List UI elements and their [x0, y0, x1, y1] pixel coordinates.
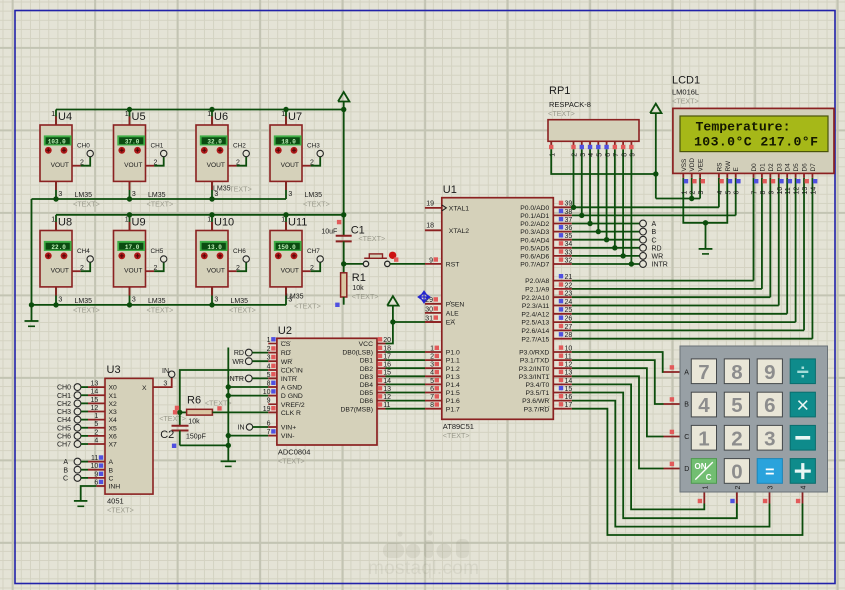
svg-text:Temperature:: Temperature: [696, 120, 791, 135]
svg-text:16: 16 [565, 394, 573, 401]
svg-text:22: 22 [565, 282, 573, 289]
svg-text:17: 17 [565, 402, 573, 409]
node IN terminal at U3 X output [142, 368, 175, 392]
svg-text:A: A [63, 459, 68, 466]
svg-text:150.0: 150.0 [278, 244, 296, 251]
U1 XTAL2 pin [425, 223, 469, 235]
svg-text:P0.1/AD1: P0.1/AD1 [520, 213, 549, 220]
wire R6 junction to U2 CLK IN [180, 370, 277, 412]
power symbol VCC (EA/ADC) [387, 296, 398, 322]
wire P3.6 to keypad column 3 [572, 401, 770, 527]
svg-text:P1.1: P1.1 [446, 358, 460, 365]
svg-text:9: 9 [768, 191, 775, 195]
U1 port3 pins [553, 345, 572, 409]
node B terminal (port0) [640, 228, 657, 236]
svg-text:RP1: RP1 [549, 85, 570, 97]
svg-text:ALE: ALE [446, 311, 459, 318]
svg-text:14: 14 [91, 389, 99, 396]
svg-text:31: 31 [425, 315, 433, 322]
temperature sensor U6 (LM35) [196, 110, 252, 200]
svg-text:X0: X0 [109, 385, 118, 392]
svg-text:<TEXT>: <TEXT> [548, 109, 575, 118]
push button (reset) [344, 252, 442, 267]
resistor pack RP1 (RESPACK-8) [548, 85, 639, 141]
resistor R1 10k [335, 264, 378, 307]
wire LCD VDD/VEE power [656, 113, 700, 202]
svg-text:P0.6/AD6: P0.6/AD6 [520, 254, 549, 261]
svg-text:VOUT: VOUT [207, 162, 225, 169]
svg-text:2: 2 [572, 153, 579, 157]
svg-text:1: 1 [430, 345, 434, 352]
wire VCC rail top row 1 [56, 107, 346, 112]
svg-text:8: 8 [430, 402, 434, 409]
svg-text:1: 1 [125, 217, 129, 224]
svg-text:U6: U6 [214, 111, 228, 123]
svg-text:DB2: DB2 [360, 366, 373, 373]
svg-text:P2.2/A10: P2.2/A10 [521, 295, 549, 302]
svg-text:2: 2 [80, 160, 84, 167]
svg-text:PSEN: PSEN [446, 301, 465, 308]
svg-text:28: 28 [565, 332, 573, 339]
svg-text:P3.7/RD: P3.7/RD [524, 406, 550, 413]
wire P3.0 to keypad row A [572, 352, 680, 372]
node IN terminal at U2 VIN+ [238, 424, 277, 432]
svg-text:4: 4 [698, 394, 710, 417]
svg-text:U11: U11 [288, 217, 307, 229]
svg-text:<TEXT>: <TEXT> [225, 185, 252, 194]
node INTR terminal (port0) [640, 261, 668, 269]
svg-text:22.0: 22.0 [51, 244, 66, 251]
node CH2 terminal at U3 pin X2 [57, 397, 117, 408]
svg-text:VOUT: VOUT [281, 268, 299, 275]
node INTR terminal at U2 [228, 375, 277, 383]
svg-text:U2: U2 [278, 325, 292, 337]
svg-text:P2.6/A14: P2.6/A14 [521, 328, 549, 335]
svg-text:9: 9 [764, 361, 775, 384]
svg-text:3: 3 [580, 153, 587, 157]
svg-text:4051: 4051 [107, 497, 124, 506]
wire GND rail bottom row 2 [32, 302, 287, 307]
svg-text:4: 4 [267, 363, 271, 370]
svg-text:D: D [684, 466, 689, 473]
svg-text:<TEXT>: <TEXT> [229, 306, 256, 315]
svg-text:RD: RD [234, 350, 244, 357]
svg-text:0: 0 [731, 461, 742, 484]
svg-text:X4: X4 [109, 417, 118, 424]
svg-text:P2.3/A11: P2.3/A11 [522, 303, 550, 310]
svg-text:5: 5 [597, 153, 604, 157]
svg-text:3: 3 [58, 191, 62, 198]
U1 XTAL1 pin [425, 200, 469, 212]
svg-text:R6: R6 [187, 394, 201, 406]
wire P0.1 to LCD E [735, 178, 737, 216]
svg-text:DB7(MSB): DB7(MSB) [341, 406, 373, 413]
svg-text:1: 1 [702, 486, 709, 490]
svg-text:VOUT: VOUT [124, 162, 142, 169]
temperature sensor U10 (LM35) [196, 215, 256, 315]
svg-text:1: 1 [207, 217, 211, 224]
svg-text:<TEXT>: <TEXT> [159, 414, 186, 423]
svg-text:4: 4 [801, 486, 808, 490]
svg-text:3: 3 [698, 191, 705, 195]
svg-text:X: X [142, 385, 147, 392]
pin stub U2 CS [268, 343, 277, 345]
svg-text:27: 27 [565, 324, 573, 331]
svg-text:12: 12 [565, 362, 573, 369]
svg-text:P1.4: P1.4 [446, 382, 460, 389]
svg-text:LM35: LM35 [75, 192, 93, 199]
svg-text:P3.3/INT1: P3.3/INT1 [519, 374, 550, 381]
svg-text:WR: WR [232, 359, 244, 366]
wire P3.7 to keypad column 4 [572, 409, 803, 535]
node C terminal at U3 pin C [63, 471, 114, 482]
svg-text:IN: IN [238, 425, 245, 432]
svg-text:RST: RST [446, 262, 460, 269]
svg-text:<TEXT>: <TEXT> [73, 200, 100, 209]
svg-text:P3.6/WR: P3.6/WR [522, 398, 549, 405]
svg-text:A GND: A GND [281, 385, 302, 392]
svg-text:CLK IN: CLK IN [281, 368, 303, 375]
svg-text:AT89C51: AT89C51 [443, 422, 474, 431]
svg-text:D5: D5 [793, 163, 800, 172]
svg-text:3: 3 [132, 297, 136, 304]
node RST junction [341, 261, 346, 266]
wire D GND to ground net [228, 395, 277, 397]
svg-text:4: 4 [717, 191, 724, 195]
svg-text:23: 23 [565, 291, 573, 298]
svg-text:CH6: CH6 [57, 433, 71, 440]
svg-text:18: 18 [426, 223, 434, 230]
svg-text:3: 3 [768, 486, 775, 490]
svg-text:VSS: VSS [681, 159, 688, 172]
svg-text:VEE: VEE [698, 159, 705, 172]
svg-text:9: 9 [267, 398, 271, 405]
svg-text:C: C [63, 476, 68, 483]
node CH4 terminal at U3 pin X4 [57, 413, 117, 424]
svg-text:P1.6: P1.6 [446, 398, 460, 405]
svg-text:P0.5/AD5: P0.5/AD5 [520, 245, 549, 252]
svg-text:CH0: CH0 [77, 142, 90, 149]
svg-text:37.0: 37.0 [125, 138, 140, 145]
svg-text:U10: U10 [214, 217, 234, 229]
svg-text:LM35: LM35 [305, 192, 323, 199]
wire VCC rail top row 2 [56, 212, 346, 217]
svg-text:33: 33 [565, 249, 573, 256]
svg-text:P2.4/A12: P2.4/A12 [521, 311, 549, 318]
svg-text:10: 10 [263, 389, 271, 396]
svg-text:U9: U9 [132, 217, 146, 229]
svg-text:X2: X2 [109, 401, 118, 408]
svg-text:VDD: VDD [689, 158, 696, 172]
svg-text:15: 15 [565, 386, 573, 393]
svg-text:19: 19 [263, 406, 271, 413]
svg-text:5: 5 [725, 191, 732, 195]
svg-text:3: 3 [288, 191, 292, 198]
svg-text:D3: D3 [776, 163, 783, 172]
svg-text:<TEXT>: <TEXT> [107, 506, 134, 515]
svg-text:P3.4/T0: P3.4/T0 [525, 382, 549, 389]
svg-text:1: 1 [281, 217, 285, 224]
svg-text:<TEXT>: <TEXT> [147, 200, 174, 209]
svg-text:103.0: 103.0 [48, 138, 66, 145]
svg-text:WR: WR [652, 254, 664, 261]
node C terminal (port0) [640, 236, 657, 244]
svg-text:8: 8 [267, 380, 271, 387]
svg-text:R1: R1 [352, 272, 366, 284]
capacitor C1 10uF [321, 224, 385, 264]
svg-text:2: 2 [80, 265, 84, 272]
svg-text:CH7: CH7 [57, 442, 71, 449]
temperature sensor U4 (LM35) [40, 110, 100, 209]
svg-text:VIN+: VIN+ [281, 425, 296, 432]
svg-text:12: 12 [794, 187, 801, 195]
U1 port2 pins to LCD D0-D7 [553, 178, 812, 339]
wire U3 INH to ground [81, 479, 121, 501]
svg-text:9: 9 [429, 257, 433, 264]
svg-text:1: 1 [681, 191, 688, 195]
capacitor C2 150pF [160, 412, 228, 448]
svg-text:A: A [652, 221, 657, 228]
svg-text:CH7: CH7 [307, 248, 320, 255]
svg-text:34: 34 [565, 241, 573, 248]
svg-text:7: 7 [613, 153, 620, 157]
ground (LCD) [699, 249, 713, 254]
svg-text:2: 2 [153, 265, 157, 272]
svg-text:17.0: 17.0 [125, 244, 140, 251]
svg-text:DB1: DB1 [360, 358, 373, 365]
RP1 pins [549, 141, 637, 157]
node CH6 terminal at U3 pin X6 [57, 429, 117, 440]
svg-text:<TEXT>: <TEXT> [73, 306, 100, 315]
U1 P1 pin names [446, 350, 460, 414]
svg-text:2: 2 [94, 429, 98, 436]
svg-text:LM35: LM35 [148, 192, 166, 199]
node R6/C2 junction [177, 410, 182, 415]
LCD pins [681, 158, 818, 195]
svg-text:CH2: CH2 [57, 401, 71, 408]
svg-text:7: 7 [267, 429, 271, 436]
svg-text:2: 2 [236, 265, 240, 272]
svg-text:LM016L: LM016L [672, 88, 699, 97]
svg-text:<TEXT>: <TEXT> [672, 97, 699, 106]
svg-text:12: 12 [91, 405, 99, 412]
svg-text:2: 2 [690, 191, 697, 195]
svg-text:2: 2 [310, 160, 314, 167]
svg-text:DB5: DB5 [360, 390, 373, 397]
wire P0.0 to LCD RS [718, 178, 720, 208]
svg-text:VOUT: VOUT [51, 162, 69, 169]
node RD terminal (port0) [640, 244, 662, 252]
svg-text:P2.1/A9: P2.1/A9 [525, 287, 549, 294]
temperature sensor U9 (LM35) [114, 215, 174, 315]
svg-text:10: 10 [91, 463, 99, 470]
svg-text:5: 5 [731, 394, 742, 417]
svg-text:P3.0/RXD: P3.0/RXD [519, 350, 549, 357]
svg-text:÷: ÷ [797, 359, 809, 384]
svg-text:D7: D7 [810, 163, 817, 172]
wire LCD VSS/RW to ground [683, 178, 727, 249]
svg-text:P0.2/AD2: P0.2/AD2 [520, 221, 549, 228]
svg-text:CLK R: CLK R [281, 410, 301, 417]
svg-text:P1.5: P1.5 [446, 390, 460, 397]
svg-text:X1: X1 [109, 393, 118, 400]
svg-text:7: 7 [430, 394, 434, 401]
svg-text:B: B [684, 402, 689, 409]
svg-text:RD: RD [281, 350, 291, 357]
svg-text:U8: U8 [58, 217, 72, 229]
svg-text:U4: U4 [58, 111, 72, 123]
svg-text:5: 5 [94, 421, 98, 428]
svg-text:P3.5/T1: P3.5/T1 [525, 390, 549, 397]
svg-text:CH3: CH3 [57, 409, 71, 416]
wire P3.2 to keypad row C [572, 368, 680, 436]
svg-text:=: = [765, 464, 774, 481]
svg-text:DB0(LSB): DB0(LSB) [342, 350, 373, 357]
svg-text:P2.0/A8: P2.0/A8 [525, 278, 549, 285]
svg-text:B: B [652, 229, 657, 236]
svg-text:32.0: 32.0 [207, 138, 222, 145]
svg-text:VOUT: VOUT [281, 162, 299, 169]
svg-text:35: 35 [565, 233, 573, 240]
wire P3.3 to keypad row D [572, 376, 680, 468]
svg-text:CH4: CH4 [77, 248, 90, 255]
wire RP1 pin1 to power [551, 149, 658, 177]
svg-text:<TEXT>: <TEXT> [147, 306, 174, 315]
svg-text:WR: WR [281, 359, 292, 366]
U1 port0 pins with bus to RP1/LCD/terminals [553, 201, 735, 267]
svg-text:VREF/2: VREF/2 [281, 402, 305, 409]
node CH0 terminal at U3 pin X0 [57, 381, 117, 392]
svg-text:C: C [109, 476, 114, 483]
svg-text:INTR: INTR [652, 262, 668, 269]
svg-text:X3: X3 [109, 409, 118, 416]
node B terminal at U3 pin B [63, 463, 113, 474]
temperature sensor U5 (LM35) [114, 110, 174, 209]
svg-text:6: 6 [430, 386, 434, 393]
wire P3.5 to keypad column 2 [572, 393, 737, 519]
svg-text:6: 6 [94, 479, 98, 486]
svg-text:1: 1 [51, 217, 55, 224]
svg-text:C: C [684, 434, 689, 441]
svg-text:DB4: DB4 [360, 382, 373, 389]
temperature sensor U7 (LM35) [270, 110, 330, 209]
svg-text:VOUT: VOUT [124, 268, 142, 275]
svg-text:VOUT: VOUT [51, 268, 69, 275]
svg-text:9: 9 [630, 153, 637, 157]
svg-text:CH1: CH1 [151, 142, 164, 149]
svg-text:30: 30 [425, 306, 433, 313]
svg-text:8: 8 [621, 153, 628, 157]
svg-text:XTAL2: XTAL2 [449, 228, 469, 235]
svg-text:5: 5 [267, 372, 271, 379]
svg-text:10: 10 [565, 345, 573, 352]
svg-text:38: 38 [565, 209, 573, 216]
svg-text:INH: INH [109, 484, 121, 491]
svg-text:EA: EA [446, 320, 456, 327]
svg-text:<TEXT>: <TEXT> [303, 200, 330, 209]
U1 RST pin [429, 257, 459, 268]
svg-text:RS: RS [716, 163, 723, 172]
svg-text:X6: X6 [109, 433, 118, 440]
P0 bus verticals to RP1 [574, 149, 632, 264]
svg-text:VCC: VCC [359, 341, 373, 348]
svg-text:VOUT: VOUT [207, 268, 225, 275]
svg-text:ON: ON [695, 462, 707, 471]
svg-text:CH2: CH2 [233, 142, 246, 149]
svg-text:32: 32 [565, 257, 573, 264]
svg-text:2: 2 [267, 346, 271, 353]
svg-text:ADC0804: ADC0804 [278, 448, 311, 457]
svg-text:P0.0/AD0: P0.0/AD0 [520, 205, 549, 212]
svg-text:C2: C2 [160, 429, 174, 441]
svg-text:D1: D1 [759, 163, 766, 172]
wire ADC ground vertical [226, 348, 231, 462]
keypad (calculator 4x4) [680, 346, 828, 492]
svg-text:3: 3 [214, 297, 218, 304]
ground (ADC) [221, 461, 236, 466]
svg-text:LCD1: LCD1 [672, 75, 700, 87]
svg-text:11: 11 [785, 187, 792, 194]
node CH3 terminal at U3 pin X3 [57, 405, 117, 416]
microcontroller U1 (AT89C51) [442, 184, 554, 440]
svg-text:2: 2 [731, 427, 742, 450]
wire U2 VCC to EA and power [386, 319, 442, 343]
svg-text:13.0: 13.0 [207, 244, 222, 251]
svg-text:mostaql.com: mostaql.com [368, 558, 479, 579]
svg-text:10uF: 10uF [321, 229, 337, 236]
svg-text:U3: U3 [107, 364, 121, 376]
svg-text:×: × [796, 393, 809, 418]
svg-text:LM35: LM35 [286, 294, 304, 301]
svg-text:P2.5/A13: P2.5/A13 [521, 320, 549, 327]
node CH1 terminal at U3 pin X1 [57, 389, 117, 400]
multiplexer U3 (4051) [105, 364, 153, 515]
svg-text:4: 4 [588, 153, 595, 157]
svg-text:XTAL1: XTAL1 [449, 206, 469, 213]
power symbol VCC (LCD) [650, 104, 661, 114]
svg-text:5: 5 [430, 378, 434, 385]
node A terminal (port0) [640, 220, 657, 228]
svg-text:<TEXT>: <TEXT> [294, 302, 321, 311]
svg-text:8: 8 [760, 191, 767, 195]
svg-text:2: 2 [153, 160, 157, 167]
wire P3.4 to keypad column 1 [572, 384, 705, 509]
U1 right pin names [519, 205, 550, 413]
svg-text:<TEXT>: <TEXT> [358, 234, 385, 243]
svg-text:D GND: D GND [281, 393, 303, 400]
U2 left pin names and numbers [263, 337, 305, 440]
svg-text:9: 9 [94, 471, 98, 478]
svg-text:4: 4 [430, 370, 434, 377]
svg-text:1: 1 [267, 337, 271, 344]
ground (U3 INH) [74, 501, 88, 506]
svg-text:B: B [109, 467, 114, 474]
svg-text:LM35: LM35 [75, 298, 93, 305]
svg-text:11: 11 [565, 354, 572, 361]
svg-text:10k: 10k [188, 419, 200, 426]
svg-text:103.0°C 217.0°F: 103.0°C 217.0°F [694, 135, 818, 150]
svg-text:2: 2 [310, 265, 314, 272]
ground (sensor rails) [25, 305, 39, 326]
svg-text:X5: X5 [109, 425, 118, 432]
svg-text:P0.4/AD4: P0.4/AD4 [520, 237, 549, 244]
svg-text:CH6: CH6 [233, 248, 246, 255]
svg-text:CH0: CH0 [57, 385, 71, 392]
node WR terminal at U2 [232, 358, 277, 366]
svg-text:3: 3 [132, 191, 136, 198]
svg-text:7: 7 [698, 361, 709, 384]
node CH5 terminal at U3 pin X5 [57, 421, 117, 432]
